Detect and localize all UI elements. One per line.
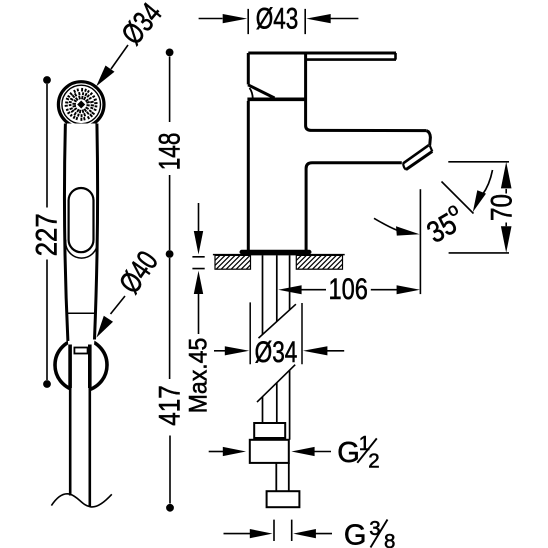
G1/2 arrows — [209, 451, 224, 453]
handle joint line — [67, 312, 95, 314]
swivel arc arrow right — [483, 170, 493, 195]
svg-text:106: 106 — [329, 273, 368, 306]
slot lower surround — [66, 240, 98, 258]
svg-text:417: 417 — [154, 385, 187, 426]
counter hatch right — [296, 255, 342, 269]
svg-text:3: 3 — [369, 517, 380, 540]
lever block — [247, 53, 250, 85]
label G 1/2 — [337, 432, 380, 473]
spout underside — [306, 163, 402, 250]
G3/8 dimension ticks — [274, 520, 292, 541]
svg-text:2: 2 — [368, 450, 379, 473]
dimension Ø34 (shank) extension lines — [250, 302, 302, 364]
G3/8 fitting — [267, 491, 300, 507]
supply pipes upper — [263, 255, 290, 334]
counter line — [213, 254, 345, 256]
svg-text:Ø43: Ø43 — [256, 2, 299, 35]
dimension 70 — [448, 162, 509, 253]
counter hatch left — [215, 255, 251, 269]
svg-text:Ø34: Ø34 — [255, 336, 298, 369]
hand shower head outer circle — [58, 82, 104, 128]
supply pipes lower — [263, 370, 290, 440]
base flange — [240, 250, 312, 254]
bracket clip bars — [68, 345, 72, 389]
dimension Ø43 — [199, 18, 223, 20]
vertical reference line — [419, 189, 421, 294]
lever bottom thick line — [247, 98, 306, 102]
dimension 148/417 line — [166, 49, 174, 57]
aerator tip — [426, 131, 430, 146]
spray center diamond — [76, 99, 87, 110]
wall bracket circle — [55, 339, 107, 391]
svg-text:Ø40: Ø40 — [113, 245, 165, 299]
svg-text:Max.45: Max.45 — [185, 338, 213, 414]
pipe break diagonal D2 — [257, 365, 295, 402]
svg-text:G: G — [337, 437, 360, 469]
faucet lever bar — [248, 52, 396, 55]
spray direction line — [442, 182, 474, 214]
hand shower handle body — [65, 124, 68, 342]
svg-text:227: 227 — [30, 213, 63, 256]
svg-text:148: 148 — [153, 133, 186, 171]
hose (covers bracket center) — [71, 340, 88, 500]
handle oval slot — [69, 188, 94, 252]
leader arrow to head — [111, 45, 128, 69]
hand shower head inner circle — [62, 85, 101, 124]
leader arrow to bracket — [111, 296, 126, 314]
svg-text:70: 70 — [485, 194, 518, 221]
svg-text:8: 8 — [384, 530, 395, 548]
swivel arc arrow left — [374, 218, 407, 232]
hand shower handle fill — [65, 124, 98, 347]
hook notch — [74, 348, 87, 354]
dimension Max.45 — [198, 203, 200, 232]
G1/2 nut small — [254, 423, 285, 438]
label 35° — [419, 199, 470, 250]
pipe break diagonal D1 — [259, 304, 296, 338]
G1/2 nut big — [250, 440, 289, 463]
faucet body — [247, 101, 250, 250]
label G 3/8 — [344, 517, 396, 548]
hose break wavy line — [51, 494, 111, 507]
svg-text:Ø34: Ø34 — [116, 0, 169, 51]
dimension Ø34 arrows — [214, 350, 228, 352]
svg-text:G: G — [344, 520, 367, 548]
threaded rod — [276, 463, 289, 491]
spray nozzle pattern — [65, 88, 98, 121]
dimension 227 line — [43, 76, 51, 84]
dimension 106 — [278, 285, 301, 294]
